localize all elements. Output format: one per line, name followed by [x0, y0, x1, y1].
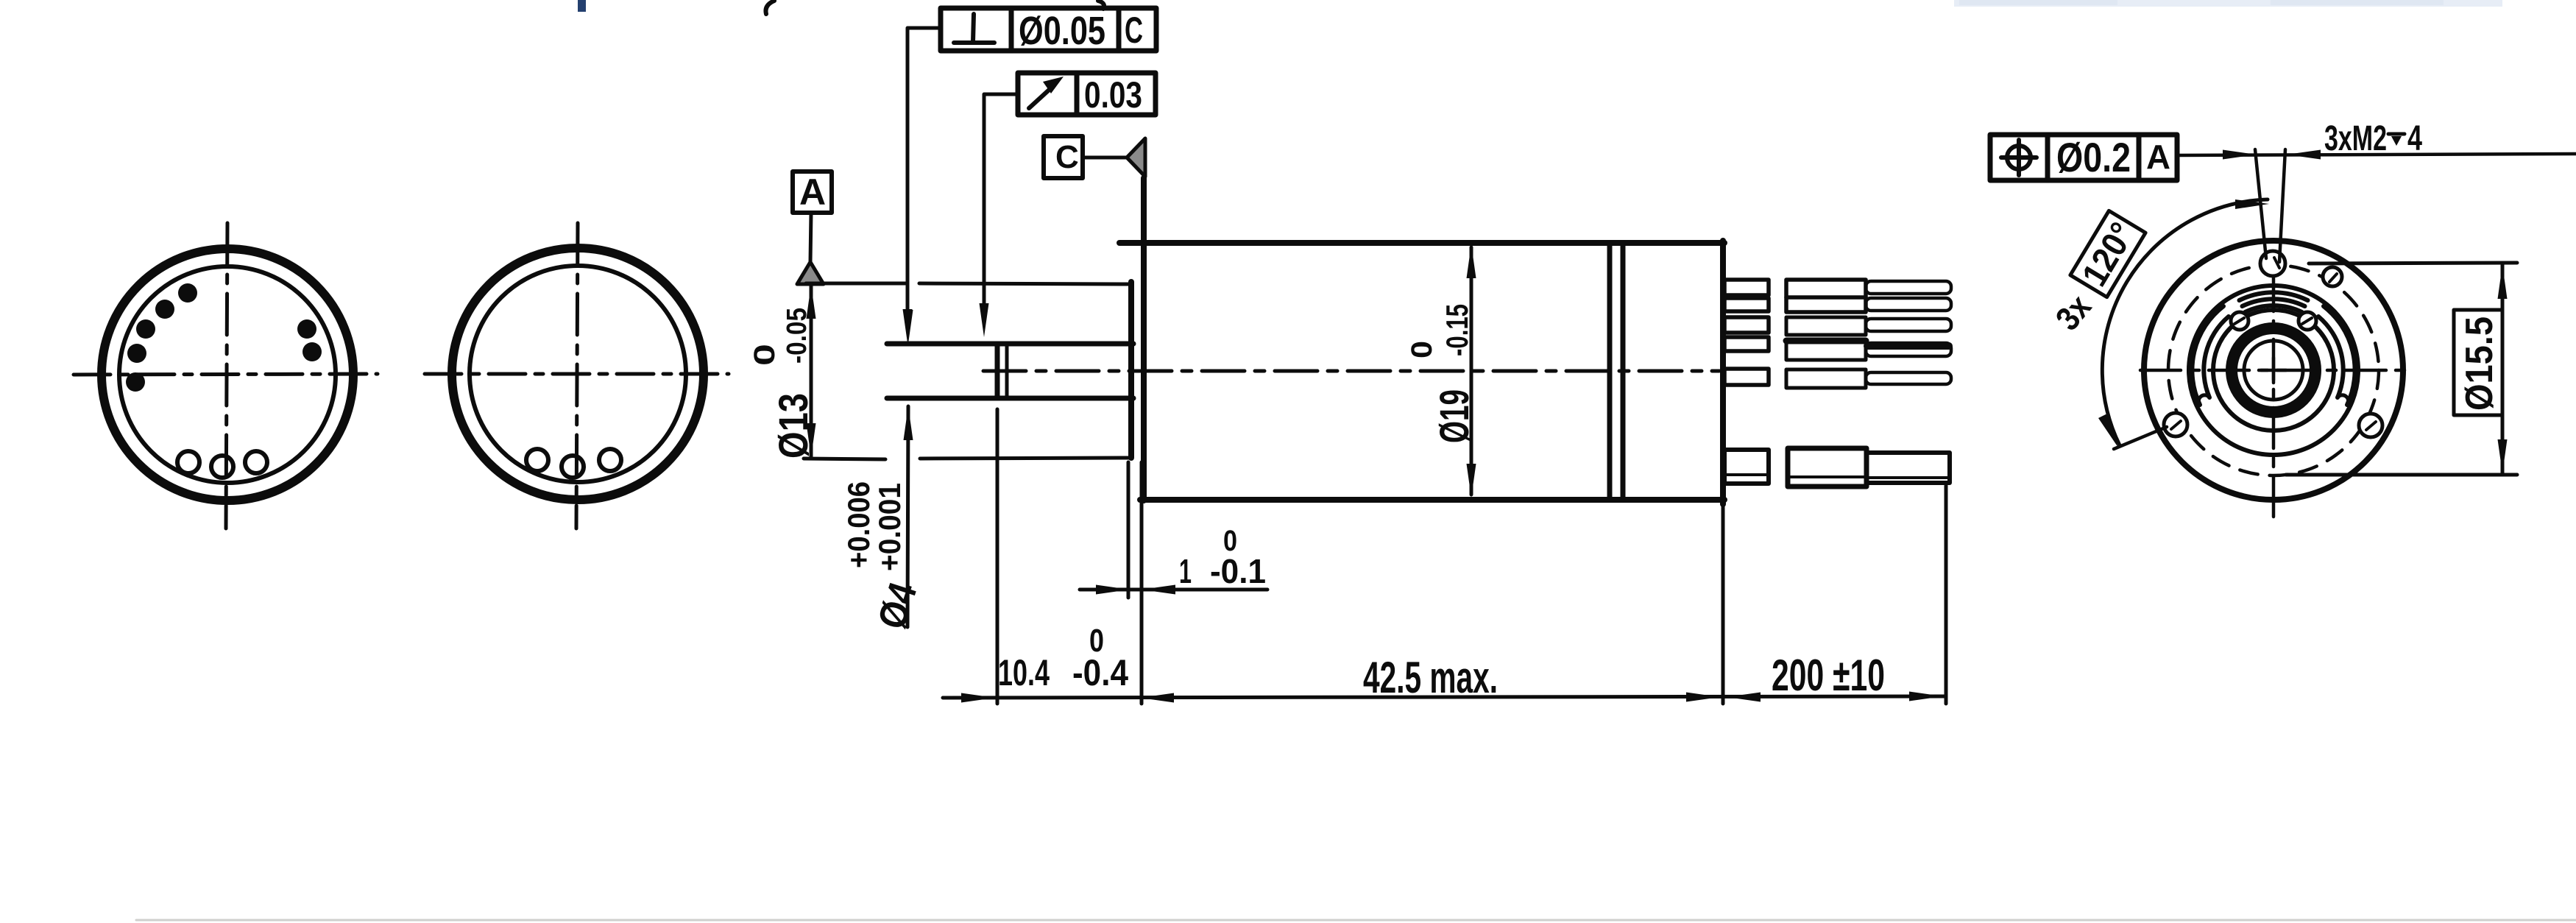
wire 1 [1866, 281, 1951, 294]
main centerline [983, 369, 1719, 373]
dia15.5 box [2454, 310, 2502, 415]
svg-text:3xM2: 3xM2 [2324, 119, 2387, 158]
position symbol [2007, 146, 2031, 169]
svg-text:-0.1: -0.1 [1210, 552, 1266, 590]
pin stub 1 [1724, 280, 1769, 295]
VIEW1 rear view of motor [74, 223, 378, 528]
bottom dimension line [943, 696, 1945, 698]
svg-text:200 ±10: 200 ±10 [1772, 651, 1885, 700]
cable section 2 [1866, 453, 1950, 483]
blue title remnant [578, 0, 586, 12]
datum A box [793, 171, 832, 213]
dia13 dimension line [810, 286, 813, 456]
body parting double line [1607, 244, 1613, 499]
view1 bottom holes [177, 451, 199, 473]
svg-text:C: C [1125, 10, 1143, 51]
radial line to screw [2114, 427, 2167, 449]
wire 2 [1866, 298, 1951, 311]
svg-text:Ø13: Ø13 [770, 393, 816, 459]
runout leader [984, 94, 1018, 305]
wire 3 [1866, 319, 1951, 331]
datum A triangle [797, 262, 824, 284]
M2 screw lower-left [2164, 413, 2187, 436]
top fan arcs [2246, 305, 2302, 312]
view1 outer circle [102, 249, 353, 501]
DIMS [749, 244, 1946, 704]
svg-text:0: 0 [1223, 525, 1237, 557]
perpendicularity leader [907, 28, 941, 312]
pilot circle [2189, 286, 2358, 455]
shaft circle [2244, 341, 2303, 400]
view2 vertical centerline [576, 223, 578, 528]
svg-text:0.03: 0.03 [1084, 74, 1142, 116]
shaft bottom edge [887, 396, 1133, 401]
svg-text:A: A [2146, 138, 2170, 176]
svg-text:-0.15: -0.15 [1440, 304, 1474, 356]
M2 screw top [2260, 251, 2285, 276]
inner housing circle [2213, 310, 2334, 431]
svg-text:42.5 max.: 42.5 max. [1363, 653, 1498, 702]
shaft top edge [887, 342, 1133, 347]
svg-text:Ø0.05: Ø0.05 [1019, 9, 1105, 53]
runout frame [1018, 73, 1156, 115]
svg-text:+0.006: +0.006 [841, 481, 876, 568]
motor front face [1141, 178, 1147, 501]
wire 4 [1866, 343, 1951, 356]
cropped parenthesis [765, 1, 774, 14]
pin stub 2 [1724, 298, 1769, 311]
left hook [2204, 316, 2229, 397]
view2 inner circle [470, 266, 686, 482]
svg-text:4: 4 [2407, 119, 2422, 158]
cable stub [1724, 450, 1769, 484]
plate thickness dim [1127, 462, 1130, 598]
svg-text:Ø0.2: Ø0.2 [2056, 134, 2131, 180]
svg-text:1: 1 [1179, 552, 1192, 590]
SIDEVIEW [793, 8, 1951, 504]
motor body outline [1119, 240, 1724, 246]
M2 leader line [2177, 154, 2576, 155]
terminal pair 1-2 [1786, 280, 1866, 312]
datum A leader [810, 213, 811, 262]
120deg arc [2102, 199, 2268, 445]
perpendicularity frame [941, 8, 1156, 51]
dia15.5 dimension line [2501, 264, 2505, 475]
pin stub 4 [1724, 337, 1769, 351]
locating hole [2323, 267, 2342, 286]
view1 solder pad dots [126, 283, 322, 392]
120deg label box [2070, 211, 2145, 297]
thick bearing ring [2232, 328, 2315, 412]
right view vertical centerline [2272, 271, 2276, 521]
terminal 3 [1786, 317, 1866, 335]
dia19 dimension line [1470, 247, 1473, 495]
svg-text:0: 0 [1089, 623, 1104, 659]
depth symbol [2388, 132, 2405, 136]
plate bottom extension [804, 459, 885, 459]
view2 horizontal centerline [425, 372, 729, 376]
view1 inner circle [119, 266, 336, 483]
pin stub 5 [1724, 369, 1769, 385]
svg-text:-0.05: -0.05 [782, 308, 813, 364]
datum C triangle [1127, 138, 1145, 177]
svg-text:+0.001: +0.001 [872, 483, 907, 571]
plate screws small [2231, 312, 2248, 330]
right hook [2318, 316, 2343, 397]
svg-text:10.4: 10.4 [998, 652, 1050, 693]
view2 outer circle [452, 248, 704, 500]
view1 vertical centerline [226, 223, 227, 528]
svg-text:Ø19: Ø19 [1431, 389, 1477, 443]
M2 hole projection lines [2255, 149, 2266, 258]
svg-text:Ø15.5: Ø15.5 [2458, 316, 2501, 411]
position tolerance frame [1990, 135, 2177, 180]
bottom hairline [136, 919, 2576, 922]
svg-text:C: C [1055, 139, 1079, 175]
right view horizontal centerline [2140, 369, 2407, 372]
RIGHTVIEW front view with mounting holes [1990, 119, 2576, 521]
svg-text:A: A [799, 171, 826, 213]
terminal 4 [1786, 340, 1866, 360]
3x label [2048, 287, 2098, 337]
dia15.5 extension lines [2309, 263, 2517, 264]
datum C leader [1083, 156, 1127, 160]
right view outer circle [2144, 241, 2403, 500]
M2 screw lower-right [2359, 414, 2382, 437]
cropped glyph tail [1098, 1, 1104, 9]
plate top extension [806, 282, 905, 286]
bottom extension lines [996, 409, 999, 704]
front plate left edge [1128, 282, 1134, 458]
center cross [2261, 369, 2286, 372]
dia4 dimension [904, 310, 913, 344]
highlight smudge top right [1954, 0, 2502, 7]
view1 horizontal centerline [74, 374, 378, 375]
cable section 1 [1788, 448, 1866, 487]
pin stub 3 [1724, 317, 1769, 333]
perpendicularity symbol [973, 14, 974, 42]
wire 5 [1866, 372, 1951, 384]
bolt circle dashed [2168, 265, 2379, 475]
view2 bottom holes [526, 449, 548, 471]
svg-text:0: 0 [749, 344, 781, 366]
datum C box [1044, 136, 1083, 178]
svg-text:0: 0 [1406, 341, 1438, 358]
runout arrow symbol [1029, 85, 1054, 108]
VIEW2 front face view [425, 223, 729, 528]
shaft end face [995, 344, 1000, 397]
shaft chamfer line [1005, 345, 1009, 397]
terminal 5 [1786, 369, 1866, 388]
